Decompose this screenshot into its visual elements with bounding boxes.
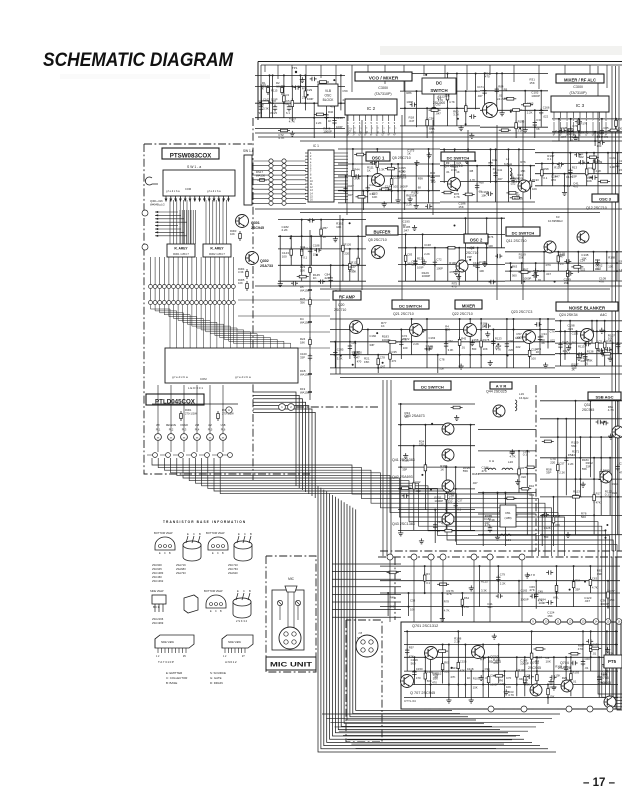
wire vertical — [339, 215, 341, 374]
svg-text:47K: 47K — [450, 675, 455, 679]
svg-text:470: 470 — [578, 647, 583, 651]
wire drop — [442, 645, 444, 684]
svg-text:.022: .022 — [578, 155, 584, 159]
junction — [425, 74, 427, 76]
svg-text:Q6: Q6 — [470, 246, 475, 250]
ground — [460, 125, 462, 128]
resistor — [488, 674, 490, 677]
svg-text:55K: 55K — [433, 676, 438, 680]
main unit left border — [257, 62, 259, 121]
transistor Q41 — [442, 449, 454, 461]
wire bus — [404, 630, 618, 632]
resistor — [447, 91, 449, 94]
svg-text:0.1: 0.1 — [426, 581, 430, 585]
svg-text:10K: 10K — [608, 337, 613, 341]
svg-text:33P: 33P — [575, 588, 580, 592]
svg-text:2SC900: 2SC900 — [152, 563, 162, 567]
svg-text:R302 1.8K×7: R302 1.8K×7 — [209, 252, 225, 256]
svg-text:C5: C5 — [598, 339, 602, 343]
svg-text:C37: C37 — [457, 499, 463, 503]
wire drop — [492, 330, 494, 355]
node A circle — [226, 407, 232, 413]
capacitor — [314, 249, 316, 251]
svg-text:470: 470 — [432, 681, 437, 685]
wire vertical — [335, 290, 337, 374]
svg-text:C78: C78 — [439, 358, 445, 362]
svg-text:C41: C41 — [497, 168, 503, 172]
resistor — [317, 81, 320, 83]
svg-text:OSC 3: OSC 3 — [599, 196, 612, 201]
capacitor — [497, 575, 499, 577]
svg-text:C195: C195 — [337, 348, 344, 352]
svg-text:33/25: 33/25 — [270, 111, 277, 115]
wire drop — [497, 566, 499, 593]
svg-text:B: B — [250, 532, 252, 536]
svg-text:R. AREY: R. AREY — [210, 247, 224, 251]
svg-text:2.2K: 2.2K — [406, 203, 412, 207]
wire switch leads — [165, 196, 167, 202]
block MIXER/RF ALC label — [556, 74, 604, 83]
ground — [428, 152, 430, 155]
transistor Q707 — [401, 675, 414, 688]
svg-text:C: COLLECTOR: C: COLLECTOR — [166, 676, 187, 680]
resistor — [525, 466, 528, 468]
capacitor — [535, 323, 537, 325]
svg-text:R17: R17 — [596, 492, 602, 496]
svg-text:.022: .022 — [612, 491, 618, 495]
wire drop — [573, 566, 575, 607]
wire drop — [570, 119, 572, 141]
wire drop — [326, 103, 328, 128]
wire drop — [530, 166, 532, 200]
wire bus — [480, 90, 548, 92]
capacitor — [479, 657, 481, 659]
svg-text:R86: R86 — [406, 91, 412, 95]
ground — [511, 449, 513, 452]
wire vertical — [390, 380, 392, 556]
svg-text:2SA628: 2SA628 — [558, 666, 571, 670]
ground — [301, 77, 303, 80]
svg-text:.01: .01 — [572, 680, 576, 684]
capacitor — [432, 175, 434, 177]
capacitor — [601, 422, 603, 424]
transistor Q11 — [544, 241, 556, 253]
wire drop — [376, 149, 378, 176]
capacitor — [445, 341, 447, 343]
svg-text:100P: 100P — [336, 125, 343, 129]
capacitor — [617, 464, 619, 466]
wire bus — [255, 117, 345, 119]
capacitor — [484, 88, 486, 90]
resistor — [377, 356, 379, 359]
wire drop — [565, 419, 567, 496]
resistor — [461, 597, 463, 600]
block DC SWITCH Q11 label — [506, 227, 540, 236]
svg-text:2SC1383: 2SC1383 — [152, 571, 164, 575]
ground — [550, 679, 552, 682]
capacitor — [599, 479, 601, 481]
capacitor — [564, 261, 566, 263]
svg-text:1K: 1K — [381, 324, 385, 328]
svg-text:100P: 100P — [436, 266, 443, 270]
wire bus — [330, 318, 555, 320]
junction — [605, 537, 607, 539]
svg-text:C165: C165 — [521, 589, 528, 593]
junction — [340, 355, 342, 357]
resistor — [570, 496, 573, 498]
resistor — [593, 161, 595, 164]
capacitor — [410, 104, 412, 106]
wire drop — [609, 458, 611, 516]
ground — [291, 131, 293, 134]
wire drop — [506, 319, 508, 368]
svg-text:.047: .047 — [497, 177, 503, 181]
resistor — [557, 462, 559, 465]
wire drop — [426, 108, 428, 138]
wire drop — [464, 645, 466, 698]
svg-text:2.2K: 2.2K — [454, 640, 460, 644]
resistor — [342, 243, 344, 246]
svg-text:C60: C60 — [585, 657, 591, 661]
svg-text:R196: R196 — [518, 120, 525, 124]
svg-text:3.3K: 3.3K — [448, 348, 454, 352]
svg-text:L E D 3 0 1: L E D 3 0 1 — [188, 386, 203, 390]
svg-text:560: 560 — [544, 535, 549, 539]
resistor — [424, 573, 426, 576]
wire display to rf links — [238, 299, 330, 301]
svg-text:100: 100 — [282, 254, 287, 258]
svg-text:1K: 1K — [571, 367, 575, 371]
resistor — [304, 88, 306, 91]
svg-text:10K: 10K — [483, 347, 488, 351]
resistor — [510, 197, 513, 199]
svg-text:15K: 15K — [458, 205, 463, 209]
resistor — [376, 159, 378, 162]
wire bus row2 bottom — [255, 208, 622, 210]
wire drop — [541, 515, 543, 546]
resistor — [399, 487, 402, 489]
capacitor — [308, 219, 310, 221]
svg-text:2.2K: 2.2K — [316, 121, 322, 125]
resistor — [557, 253, 559, 256]
svg-text:AN612: AN612 — [225, 660, 237, 664]
capacitor — [542, 514, 544, 516]
svg-text:4.7K: 4.7K — [608, 408, 614, 412]
capacitor — [598, 675, 600, 677]
wire drop — [543, 252, 545, 281]
svg-text:0.1: 0.1 — [513, 180, 518, 184]
transistor base 3d box — [184, 595, 198, 613]
wire drop — [553, 657, 555, 684]
wire bundle vertical left to bottom — [318, 486, 556, 752]
resistor — [570, 671, 572, 674]
svg-text:DC SWITCH: DC SWITCH — [447, 155, 470, 160]
ground — [414, 225, 416, 228]
svg-text:DC SWITCH: DC SWITCH — [399, 303, 422, 308]
wire audio verticals from chain — [389, 560, 391, 622]
capacitor — [330, 276, 332, 278]
ground — [564, 190, 566, 193]
wire drop — [593, 458, 595, 535]
wire drop — [558, 119, 560, 141]
resistor — [598, 181, 601, 183]
svg-text:.01: .01 — [592, 651, 596, 655]
resistor — [446, 247, 449, 249]
svg-text:18K: 18K — [300, 340, 305, 344]
wire drop — [391, 164, 393, 203]
svg-text:R8: R8 — [470, 169, 474, 173]
wire bus — [535, 173, 622, 175]
svg-text:OSC 1: OSC 1 — [372, 155, 385, 160]
wire drop — [424, 425, 426, 510]
wire drop — [534, 110, 536, 138]
svg-text:1000P: 1000P — [618, 126, 622, 130]
wire drop — [582, 631, 584, 697]
wire drop — [547, 685, 549, 705]
svg-text:C163: C163 — [429, 336, 436, 340]
resistor — [590, 643, 592, 646]
capacitor — [584, 343, 586, 345]
ground — [480, 675, 482, 678]
svg-text:10K: 10K — [608, 265, 613, 269]
resistor — [457, 660, 459, 663]
wire drop — [536, 657, 538, 696]
capacitor — [539, 335, 541, 337]
svg-text:– 17 –: – 17 – — [583, 777, 616, 789]
resistor — [556, 583, 558, 586]
svg-text:B: BASE: B: BASE — [166, 681, 177, 685]
wire bus — [404, 656, 618, 658]
block RF AMP label — [333, 291, 361, 300]
ground — [455, 269, 457, 272]
svg-text:C: C — [164, 552, 166, 555]
wire rows between pin columns — [252, 160, 269, 162]
junction — [584, 581, 586, 583]
block NOISE BLANKER label — [556, 302, 618, 311]
capacitor — [484, 325, 486, 327]
wire vertical — [382, 380, 384, 556]
resistor — [429, 109, 432, 111]
capacitor — [434, 260, 436, 262]
svg-text:.047: .047 — [472, 481, 478, 485]
svg-text:WA150: WA150 — [256, 174, 266, 178]
capacitor — [318, 281, 320, 283]
svg-text:Q1: Q1 — [437, 96, 442, 100]
wire drop — [541, 164, 543, 186]
wire drop — [291, 86, 293, 121]
svg-text:RF AMP: RF AMP — [339, 294, 355, 299]
node 1 circle — [279, 404, 286, 411]
wire bus — [540, 496, 622, 498]
resistor — [320, 227, 322, 230]
capacitor — [326, 113, 328, 115]
capacitor — [570, 127, 572, 129]
wire bus row4 bottom — [330, 373, 622, 375]
wire drop — [437, 355, 439, 373]
wire drop — [397, 164, 399, 198]
svg-text:R40: R40 — [328, 110, 334, 114]
svg-text:33P: 33P — [467, 255, 472, 259]
capacitor — [400, 340, 402, 342]
svg-text:0.1: 0.1 — [303, 255, 307, 259]
svg-text:100: 100 — [403, 346, 408, 350]
wire drop — [598, 657, 600, 697]
wire vertical — [361, 120, 363, 290]
resistor — [424, 462, 426, 465]
wire bus — [552, 140, 622, 142]
capacitor — [476, 183, 478, 185]
wire drop — [389, 342, 391, 368]
ground — [448, 698, 450, 701]
IC U301 PLL body — [308, 150, 334, 202]
resistor — [504, 98, 507, 100]
wire drop — [553, 497, 555, 546]
svg-text:2SC710: 2SC710 — [334, 308, 346, 312]
wire bus — [480, 126, 548, 128]
svg-text:IC 2: IC 2 — [367, 106, 376, 111]
wire drop — [467, 149, 469, 202]
junction — [457, 118, 459, 120]
wire bus — [255, 74, 345, 76]
wire drop — [447, 248, 449, 281]
svg-text:OSC: OSC — [325, 94, 333, 98]
capacitor — [578, 161, 580, 163]
capacitor — [575, 121, 577, 123]
resistor — [436, 650, 439, 652]
svg-text:2.2K: 2.2K — [527, 111, 533, 115]
resistor — [530, 178, 532, 181]
wire bus — [398, 233, 505, 235]
connector stub switch left — [145, 177, 158, 185]
svg-text:DC: DC — [436, 81, 443, 86]
svg-text:Q301~316: Q301~316 — [150, 199, 163, 203]
resistor — [607, 590, 609, 593]
wire bus — [398, 403, 475, 405]
svg-text:C171: C171 — [477, 85, 484, 89]
wire drop — [607, 153, 609, 174]
capacitor — [413, 670, 415, 672]
wire drop — [556, 566, 558, 607]
svg-text:SW 1-b: SW 1-b — [243, 149, 254, 153]
wire drop — [362, 191, 364, 210]
ground — [484, 261, 486, 264]
svg-text:15K: 15K — [547, 614, 552, 618]
wire drop — [535, 263, 537, 281]
resistor — [589, 647, 592, 649]
svg-text:15K: 15K — [564, 281, 569, 285]
svg-text:R301: R301 — [185, 408, 192, 412]
svg-text:4.7K: 4.7K — [444, 608, 450, 612]
resistor — [578, 122, 580, 125]
svg-text:470: 470 — [485, 75, 490, 79]
wire drop — [606, 631, 608, 684]
svg-text:100: 100 — [444, 670, 449, 674]
transistor Q21 — [410, 324, 423, 337]
ground — [487, 331, 489, 334]
wire bus — [404, 644, 618, 646]
resistor — [499, 129, 502, 131]
wire drop — [411, 319, 413, 355]
svg-text:BOTTOM VIEW: BOTTOM VIEW — [206, 531, 225, 535]
wire bus — [505, 262, 622, 264]
ground — [489, 360, 491, 363]
resistor — [504, 514, 506, 517]
wire arrow fan — [155, 211, 178, 213]
audio unit circles on top chain — [387, 554, 393, 560]
svg-text:3.3K: 3.3K — [263, 107, 269, 111]
capacitor — [577, 354, 579, 356]
wire top drops — [264, 65, 266, 72]
svg-text:1000P: 1000P — [323, 130, 332, 134]
wire bus — [278, 235, 366, 237]
wire drop — [557, 419, 559, 516]
resistor — [515, 120, 517, 123]
svg-text:100P: 100P — [539, 601, 546, 605]
junction — [554, 281, 556, 283]
svg-text:b: b — [378, 128, 379, 130]
capacitor — [489, 281, 491, 283]
wire drop — [367, 330, 369, 355]
wire bus — [398, 488, 475, 490]
wire drop — [497, 493, 499, 535]
block SSB AGC label — [588, 392, 621, 400]
svg-text:SWITCH: SWITCH — [430, 88, 447, 93]
capacitor — [345, 186, 347, 188]
wire drop — [461, 593, 463, 616]
wire drop — [516, 657, 518, 696]
wire lamp bus — [152, 403, 238, 405]
svg-text:10K: 10K — [372, 195, 377, 199]
wire bus — [540, 534, 622, 536]
ground — [409, 197, 411, 200]
wire drop — [552, 153, 554, 186]
svg-text:C300l: C300l — [573, 85, 583, 89]
wire drop — [615, 631, 617, 697]
junction — [421, 474, 423, 476]
svg-text:1K: 1K — [437, 529, 441, 533]
svg-text:1000P: 1000P — [523, 277, 531, 281]
resistor array R301 — [167, 244, 195, 257]
svg-text:b: b — [389, 128, 390, 130]
wire drop — [299, 75, 301, 103]
svg-text:SIDE VIEW: SIDE VIEW — [150, 589, 164, 593]
capacitor — [510, 514, 512, 516]
wire vertical fan drop — [179, 210, 181, 244]
svg-text:.047: .047 — [546, 272, 552, 276]
wire drop — [529, 342, 531, 368]
svg-text:2SC710: 2SC710 — [466, 251, 478, 255]
junction — [465, 123, 467, 125]
capacitor — [540, 108, 542, 110]
wire bus — [555, 365, 622, 367]
ground — [545, 363, 547, 366]
svg-text:DC SWITCH: DC SWITCH — [421, 384, 444, 389]
resistor — [553, 514, 555, 517]
svg-text:R178: R178 — [483, 338, 490, 342]
wire drop — [524, 657, 526, 696]
wire bus — [555, 342, 622, 344]
wire bus — [552, 131, 622, 133]
wire drop — [616, 252, 618, 281]
wire drop — [589, 566, 591, 593]
wire drop — [430, 657, 432, 697]
wire vertical — [346, 115, 348, 215]
wire drop — [579, 437, 581, 497]
wire bus — [338, 163, 440, 165]
wire bus — [440, 201, 535, 203]
svg-text:ANL: ANL — [553, 596, 559, 600]
svg-text:470: 470 — [402, 337, 407, 341]
